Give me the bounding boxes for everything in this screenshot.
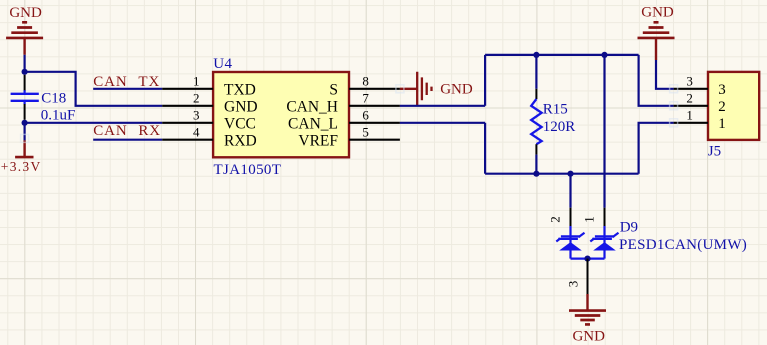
junction node D9 pin1 branch: [601, 52, 607, 58]
junction node R15 bottom on CAN_L rail: [533, 171, 539, 177]
svg-text:VREF: VREF: [298, 133, 338, 150]
wire left vertical up to CAN_H rail: [484, 55, 486, 106]
junction node D9 pin2 branch: [567, 171, 573, 177]
wire D9 pin2 branch from CAN_L rail: [569, 174, 571, 208]
svg-text:RXD: RXD: [224, 133, 257, 150]
ground GND (top right power port): [638, 22, 675, 60]
svg-text:2: 2: [718, 99, 726, 115]
svg-text:CAN_H: CAN_H: [286, 99, 338, 116]
svg-text:GND: GND: [641, 5, 674, 21]
ground GND flag on pin 8 (S): [400, 72, 432, 106]
junction node at C18 top: [22, 69, 28, 75]
svg-text:J5: J5: [708, 144, 721, 160]
resistor R15 120R: [531, 55, 575, 174]
connector J5 body: [708, 72, 759, 140]
svg-text:R15: R15: [543, 102, 568, 118]
wire junction to +3.3V: [24, 123, 26, 141]
pin 2 of J5: [674, 105, 708, 107]
svg-text:GND: GND: [224, 99, 258, 116]
svg-text:TX: TX: [138, 74, 160, 90]
svg-text:4: 4: [193, 125, 200, 140]
svg-text:8: 8: [362, 74, 369, 89]
junction node D9 pin3: [584, 256, 590, 262]
svg-text:0.1uF: 0.1uF: [41, 108, 76, 124]
svg-text:1: 1: [718, 116, 726, 132]
svg-text:TXD: TXD: [224, 82, 256, 99]
svg-text:+3.3V: +3.3V: [1, 159, 42, 174]
capacitor C18 0.1uF: [11, 75, 76, 124]
svg-text:2: 2: [193, 91, 200, 106]
svg-text:PESD1CAN(UMW): PESD1CAN(UMW): [619, 237, 747, 253]
wire right vertical CAN_L to J5 pin1: [639, 123, 674, 174]
svg-text:GND: GND: [440, 82, 473, 98]
IC U4 TJA1050T body: [213, 72, 349, 157]
wire CAN_L bottom rail: [485, 173, 638, 175]
svg-text:3: 3: [686, 74, 693, 89]
svg-text:2: 2: [686, 91, 693, 106]
ground GND (top left power port): [6, 22, 43, 55]
junction node R15 top on CAN_H rail: [533, 52, 539, 58]
pin 7 CAN_H: [349, 105, 400, 107]
svg-text:TJA1050T: TJA1050T: [214, 162, 282, 178]
svg-text:7: 7: [362, 91, 369, 106]
pin 8 S: [349, 88, 400, 90]
svg-text:GND: GND: [9, 5, 42, 21]
svg-text:2: 2: [548, 216, 563, 223]
pin 6 CAN_L: [349, 122, 400, 124]
wire junction to U4 pin3 (VCC): [25, 122, 163, 124]
node hotspot marks (pale): [21, 85, 678, 143]
svg-text:D9: D9: [620, 220, 638, 236]
power +3.3V port: [15, 140, 33, 157]
wire CAN_H top rail: [485, 54, 638, 56]
wire right vertical CAN_H to J5 pin2: [639, 55, 674, 106]
svg-text:CAN: CAN: [93, 74, 127, 90]
svg-text:1: 1: [193, 74, 200, 89]
wire D9 common bracket: [571, 258, 605, 260]
pin 3 of D9: [587, 259, 589, 294]
wire GND stem to junction: [24, 55, 26, 72]
svg-text:3: 3: [718, 82, 726, 98]
svg-text:3: 3: [193, 108, 200, 123]
pin 5 VREF: [349, 139, 400, 141]
pin 1 of J5: [674, 122, 708, 124]
svg-text:CAN_L: CAN_L: [288, 116, 338, 133]
junction node at C18 bottom: [22, 120, 28, 126]
wire CAN_RX to U4 pin4: [93, 139, 162, 141]
svg-text:120R: 120R: [543, 119, 576, 135]
pin 1 TXD: [162, 88, 213, 90]
wire left vertical down to CAN_L rail: [484, 123, 486, 174]
svg-text:3: 3: [566, 281, 581, 288]
pin 3 VCC: [162, 122, 213, 124]
diode D9b (pin 1, right TVS): [582, 208, 619, 259]
svg-text:5: 5: [362, 125, 369, 140]
diode D9a (pin 2, left TVS): [548, 208, 585, 259]
wire U4 pin7 CAN_H to network: [400, 105, 485, 107]
pin 2 GND: [162, 105, 213, 107]
svg-text:6: 6: [362, 108, 369, 123]
svg-text:RX: RX: [138, 123, 161, 139]
svg-text:CAN: CAN: [93, 123, 127, 139]
svg-text:C18: C18: [41, 90, 66, 106]
wire D9 pin1 branch from CAN_H rail: [603, 55, 605, 208]
ground GND (bottom power port): [569, 294, 606, 324]
wire GND to J5 pin3: [656, 60, 674, 89]
svg-text:1: 1: [686, 108, 693, 123]
pin 3 of J5: [674, 88, 708, 90]
svg-text:S: S: [329, 82, 338, 99]
svg-text:1: 1: [582, 216, 597, 223]
svg-text:VCC: VCC: [224, 116, 256, 133]
svg-text:U4: U4: [213, 56, 232, 72]
wire CAN_TX to U4 pin1: [93, 88, 162, 90]
pin 4 RXD: [162, 139, 213, 141]
wire U4 pin6 CAN_L to network: [400, 122, 485, 124]
wire junction to U4 pin2 (GND): [25, 72, 163, 106]
svg-text:GND: GND: [572, 328, 605, 344]
